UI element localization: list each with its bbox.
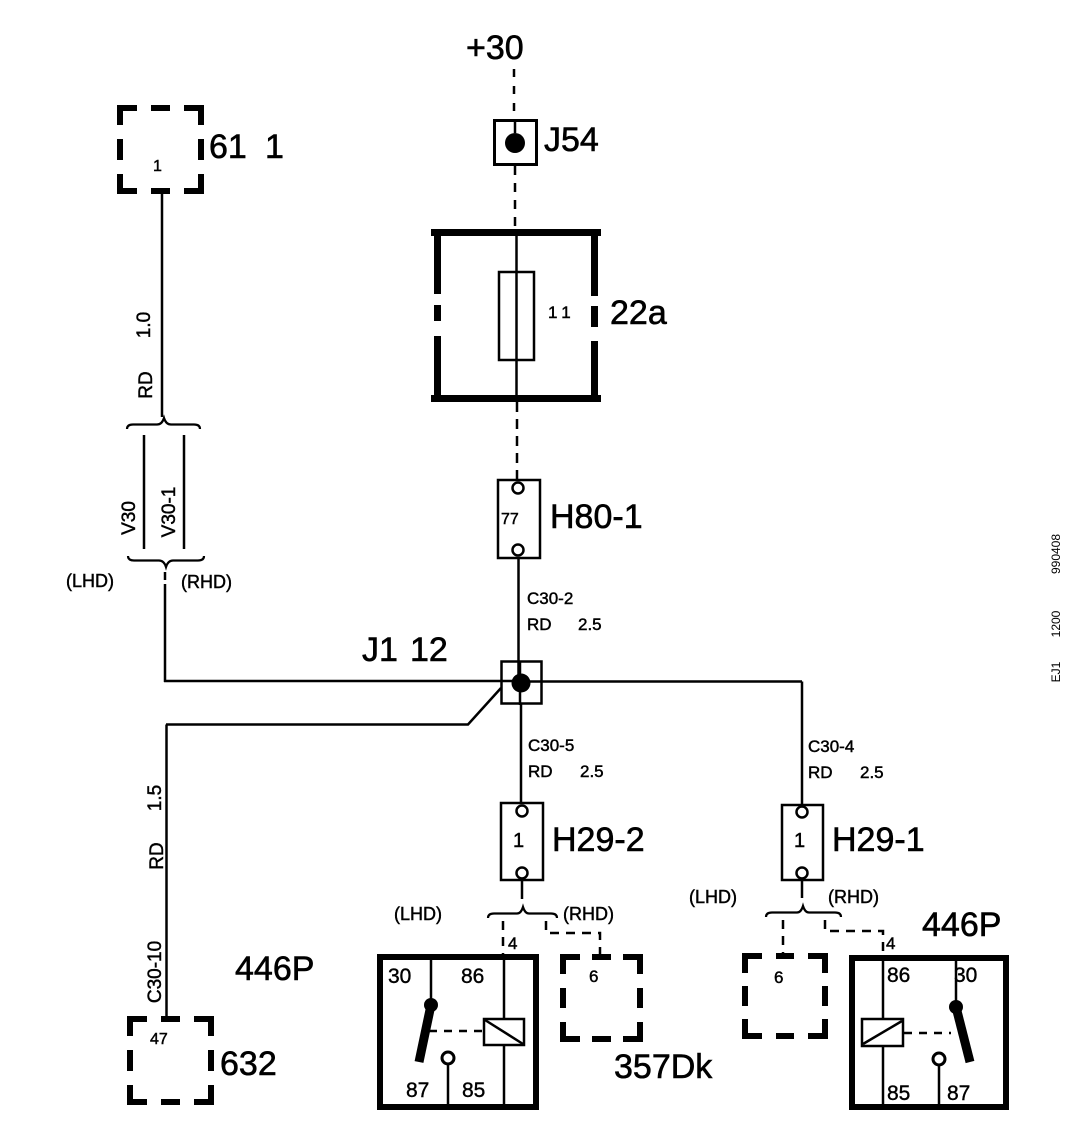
svg-text:85: 85 (462, 1079, 485, 1102)
svg-text:30: 30 (954, 964, 977, 987)
svg-text:RD: RD (527, 615, 552, 634)
svg-text:47: 47 (150, 1031, 168, 1048)
brace split LHD/RHD (right) (766, 906, 841, 917)
relay actuation dashed link (429, 1030, 484, 1033)
svg-text:85: 85 (887, 1082, 910, 1105)
svg-text:2.5: 2.5 (578, 615, 602, 634)
relay 446P (right) box (852, 958, 1006, 1107)
svg-text:(RHD): (RHD) (181, 572, 232, 592)
svg-text:1.5: 1.5 (145, 785, 166, 811)
svg-text:86: 86 (461, 965, 484, 988)
relay pin 30 wire (430, 960, 433, 1001)
wire V30 (LHD) (143, 435, 146, 549)
svg-text:86: 86 (887, 964, 910, 987)
connector H29-1 pin 1 (782, 805, 823, 880)
svg-text:(LHD): (LHD) (689, 887, 737, 907)
svg-text:4: 4 (886, 934, 895, 953)
wire junction J1 to right branch (523, 680, 802, 683)
wire through fuse box (515, 232, 518, 399)
connector 632 pin 47 dashed box (130, 1019, 211, 1102)
svg-text:632: 632 (220, 1045, 277, 1083)
svg-text:V30-1: V30-1 (159, 487, 180, 538)
relay pin 30 wire (right) (955, 961, 958, 1002)
svg-text:(RHD): (RHD) (828, 887, 879, 907)
fuse 11 (499, 272, 534, 360)
relay contact 87 (right) (933, 1053, 945, 1065)
relay actuation dashed link (right) (904, 1032, 951, 1035)
wire left column down (165, 725, 168, 1017)
svg-text:6: 6 (774, 968, 783, 987)
svg-text:87: 87 (947, 1082, 970, 1105)
relay contact 87 (442, 1052, 454, 1064)
wire dashed J54 to fuse box 22a (514, 166, 517, 228)
svg-text:1: 1 (794, 830, 805, 852)
svg-text:446P: 446P (922, 906, 1001, 944)
svg-text:H29-2: H29-2 (552, 821, 645, 859)
svg-text:1.0: 1.0 (134, 312, 155, 338)
junction J1 12 (502, 662, 542, 704)
wire H80-1 to junction J1 (517, 558, 520, 676)
relay coil wire (503, 960, 506, 1019)
svg-text:H80-1: H80-1 (550, 498, 643, 536)
connector H80-1 pin 77 (498, 480, 540, 558)
wire 61 box down (161, 194, 164, 417)
wire dashed to 357Dk (RHD) (546, 921, 600, 954)
svg-text:77: 77 (501, 511, 519, 528)
svg-text:357Dk: 357Dk (614, 1048, 713, 1086)
wire J1 to H29-2 (520, 703, 523, 803)
relay coil wire (right) (882, 961, 885, 1019)
svg-text:12: 12 (410, 631, 448, 669)
svg-text:61: 61 (209, 128, 247, 166)
svg-text:446P: 446P (235, 950, 314, 988)
wire V30-1 (RHD) (183, 435, 186, 549)
relay 446P (left) box (380, 957, 536, 1107)
wire merge to junction J1 (164, 680, 519, 683)
brace merge bottom (left column) (128, 556, 204, 567)
junction J54 (495, 120, 537, 165)
svg-text:V30: V30 (119, 501, 140, 535)
wire dashed to relay pin 4 (LHD) (502, 921, 505, 955)
wire dashed +30 to J54 (513, 69, 516, 119)
relay coil (right) (862, 1019, 903, 1046)
wire dashed to relay pin 4 (RHD right) (825, 920, 883, 955)
connector H29-2 pin 1 (501, 803, 543, 880)
svg-text:RD: RD (147, 842, 168, 869)
svg-text:C30-10: C30-10 (145, 941, 166, 1003)
svg-text:J54: J54 (544, 121, 599, 159)
brace split LHD/RHD (center) (488, 907, 557, 918)
wire dashed to connector 6 (LHD) (782, 920, 785, 953)
svg-text:H29-1: H29-1 (832, 821, 925, 859)
relay armature arm (419, 1005, 431, 1062)
relay armature pivot (right) (949, 1000, 963, 1014)
svg-text:87: 87 (406, 1079, 429, 1102)
svg-text:J1: J1 (362, 631, 398, 669)
relay contact 87 wire (right) (938, 1066, 941, 1105)
relay armature arm (right) (956, 1007, 970, 1062)
relay armature pivot (424, 998, 438, 1012)
svg-text:4: 4 (508, 934, 517, 953)
svg-text:C30-5: C30-5 (528, 736, 574, 755)
wire dashed fuse to H80-1 (516, 402, 519, 479)
connector 61 pin 1 dashed box (120, 108, 201, 191)
svg-text:(LHD): (LHD) (394, 904, 442, 924)
wire below H29-2 (521, 880, 524, 899)
brace split top (left column) (127, 418, 200, 429)
fuse holder box 22a (dashed thick border) (431, 229, 601, 402)
svg-text:RD: RD (808, 763, 833, 782)
svg-text:1: 1 (265, 128, 284, 166)
relay contact 87 wire (447, 1065, 450, 1105)
svg-text:(LHD): (LHD) (66, 571, 114, 591)
wire junction J1 to left column (lower) (166, 688, 501, 725)
svg-text:RD: RD (136, 371, 157, 398)
svg-text:6: 6 (589, 967, 598, 986)
connector 357Dk pin 6 (dashed box) (563, 957, 640, 1039)
svg-text:990408: 990408 (1049, 534, 1063, 574)
svg-text:11: 11 (548, 303, 576, 322)
svg-text:C30-2: C30-2 (527, 589, 573, 608)
relay coil (484, 1019, 524, 1045)
svg-text:1: 1 (153, 158, 162, 175)
connector pin 6 dashed box (right) (745, 956, 825, 1036)
svg-text:RD: RD (528, 762, 553, 781)
svg-text:+30: +30 (466, 29, 524, 67)
svg-text:C30-4: C30-4 (808, 737, 854, 756)
svg-text:2.5: 2.5 (580, 762, 604, 781)
svg-text:22a: 22a (610, 294, 667, 332)
svg-text:2.5: 2.5 (860, 763, 884, 782)
svg-text:1200: 1200 (1049, 610, 1063, 637)
svg-text:1: 1 (513, 830, 524, 852)
svg-text:(RHD): (RHD) (563, 904, 614, 924)
svg-text:30: 30 (388, 965, 411, 988)
svg-text:EJ1: EJ1 (1049, 661, 1063, 682)
wire below H29-1 (801, 880, 804, 898)
wire below merge (164, 572, 167, 580)
